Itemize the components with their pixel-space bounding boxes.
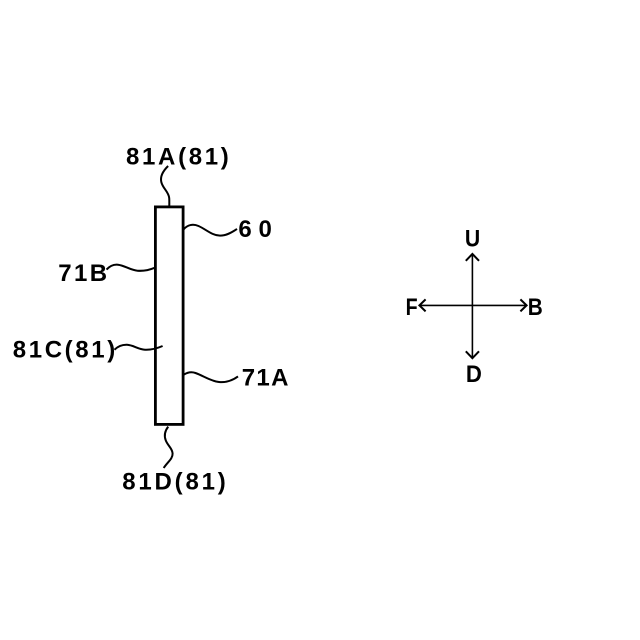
arrowhead down (D) [466,351,479,358]
orientation axis vertical line (U-D) [471,254,473,357]
svg-text:60: 60 [238,216,271,243]
arrowhead up (U) [466,254,479,261]
arrowhead left (F) [419,299,425,311]
svg-text:71A: 71A [242,364,289,391]
arrowhead right (B) [520,299,526,311]
orientation axis horizontal line (F-B) [420,304,526,306]
plate 60 (tall vertical rectangle) [155,207,183,425]
svg-text:D: D [466,361,482,388]
leader wire from label 81C(81) into middle of plate [114,345,162,350]
svg-text:81D(81): 81D(81) [122,469,225,496]
leader wire from label 71B to left edge of plate [107,265,155,271]
leader wire from plate right edge to label 71A [184,372,238,382]
leader wire from label 81A(81) to top edge of plate [161,166,169,206]
svg-text:71B: 71B [58,260,107,287]
svg-text:B: B [528,294,543,321]
leader wire from plate right edge to label 60 [184,225,237,236]
svg-text:U: U [465,225,480,252]
svg-text:81A(81): 81A(81) [126,143,229,170]
svg-text:81C(81): 81C(81) [13,336,116,363]
svg-text:F: F [406,294,418,321]
leader wire from bottom edge of plate to label 81D(81) [164,427,173,468]
